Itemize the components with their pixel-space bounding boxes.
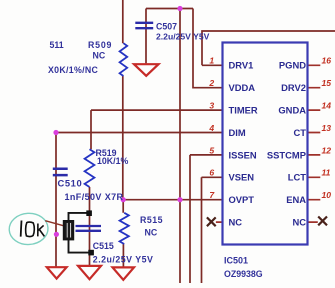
svg-text:IC501: IC501 bbox=[224, 256, 248, 266]
svg-text:511: 511 bbox=[50, 40, 64, 50]
svg-text:NC: NC bbox=[145, 228, 158, 238]
svg-text:1nF/50V X7R: 1nF/50V X7R bbox=[65, 192, 124, 202]
svg-text:6: 6 bbox=[209, 168, 214, 178]
svg-text:14: 14 bbox=[322, 101, 332, 111]
svg-text:10: 10 bbox=[322, 190, 332, 200]
svg-text:12: 12 bbox=[322, 145, 332, 155]
svg-text:SSTCMP: SSTCMP bbox=[267, 149, 306, 160]
svg-text:11: 11 bbox=[322, 168, 331, 178]
svg-text:TIMER: TIMER bbox=[229, 105, 258, 116]
svg-text:X0K/1%/NC: X0K/1%/NC bbox=[48, 65, 98, 75]
svg-text:C510: C510 bbox=[58, 177, 83, 188]
svg-text:2.2u/25V Y5V: 2.2u/25V Y5V bbox=[156, 32, 210, 42]
svg-text:VDDA: VDDA bbox=[229, 82, 256, 93]
svg-text:GNDA: GNDA bbox=[278, 105, 306, 116]
svg-text:15: 15 bbox=[322, 78, 332, 88]
svg-text:PGND: PGND bbox=[279, 60, 306, 71]
svg-text:R509: R509 bbox=[88, 40, 112, 50]
svg-text:5: 5 bbox=[209, 145, 214, 155]
svg-text:3: 3 bbox=[209, 101, 214, 111]
svg-text:13: 13 bbox=[322, 123, 332, 133]
svg-text:C515: C515 bbox=[93, 241, 114, 251]
svg-text:VSEN: VSEN bbox=[229, 172, 255, 183]
svg-text:LCT: LCT bbox=[288, 172, 306, 183]
svg-text:CT: CT bbox=[294, 127, 307, 138]
svg-text:4: 4 bbox=[208, 123, 214, 133]
svg-text:C507: C507 bbox=[156, 21, 177, 31]
svg-text:2.2u/25V Y5V: 2.2u/25V Y5V bbox=[93, 255, 154, 265]
svg-text:NC: NC bbox=[292, 217, 306, 228]
svg-text:OZ9938G: OZ9938G bbox=[224, 269, 263, 279]
svg-text:1: 1 bbox=[209, 56, 214, 66]
svg-text:ENA: ENA bbox=[286, 194, 306, 205]
svg-text:DIM: DIM bbox=[229, 127, 246, 138]
svg-text:16: 16 bbox=[322, 56, 332, 66]
svg-text:10K/1%: 10K/1% bbox=[97, 156, 128, 166]
svg-text:NC: NC bbox=[93, 50, 106, 60]
svg-text:2: 2 bbox=[208, 78, 214, 88]
svg-text:DRV1: DRV1 bbox=[229, 60, 254, 71]
svg-text:R515: R515 bbox=[140, 215, 163, 225]
svg-text:ISSEN: ISSEN bbox=[229, 149, 257, 160]
svg-text:OVPT: OVPT bbox=[229, 194, 255, 205]
svg-text:DRV2: DRV2 bbox=[281, 82, 306, 93]
svg-text:NC: NC bbox=[229, 217, 243, 228]
